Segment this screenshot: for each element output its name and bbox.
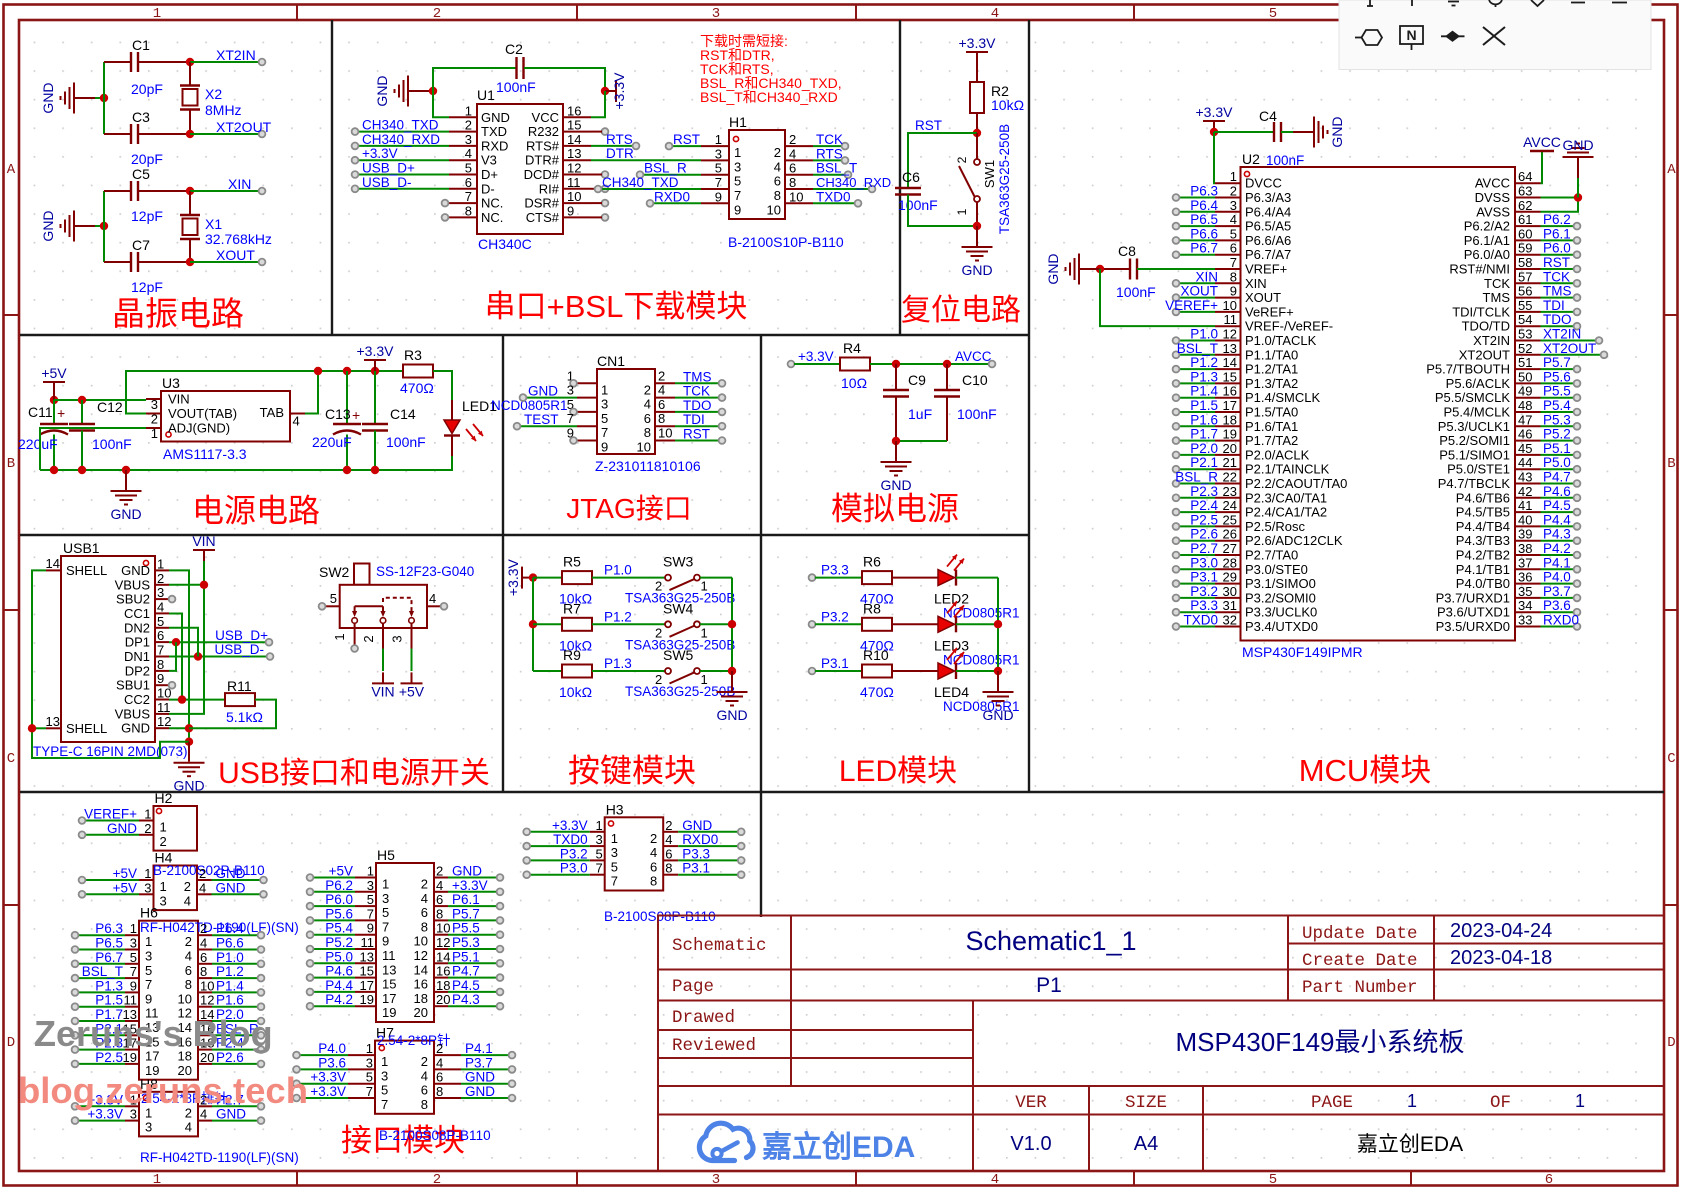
junction (82,400)	[78, 396, 86, 404]
svg-text:P3.3: P3.3	[821, 563, 849, 578]
wire XIN	[190, 190, 259, 192]
svg-text:P2.4: P2.4	[1190, 498, 1218, 513]
svg-text:SW4: SW4	[663, 600, 694, 616]
svg-text:P1.7/TA2: P1.7/TA2	[1245, 433, 1298, 448]
svg-text:NCD0805R1: NCD0805R1	[943, 652, 1020, 667]
svg-text:4: 4	[991, 6, 999, 22]
U2 pin 54 TDO/TD	[1462, 312, 1581, 334]
svg-text:5: 5	[601, 411, 608, 426]
svg-text:+3.3V: +3.3V	[959, 35, 997, 51]
svg-text:9: 9	[367, 921, 374, 936]
svg-text:P4.2: P4.2	[325, 992, 353, 1007]
svg-text:P6.2/A2: P6.2/A2	[1464, 219, 1510, 234]
svg-text:4: 4	[1230, 212, 1237, 227]
title block outline	[658, 916, 1664, 1172]
wire R2 to RST node	[976, 113, 978, 133]
svg-text:R232: R232	[528, 124, 559, 139]
svg-text:19: 19	[360, 992, 374, 1007]
svg-text:P1.2/TA1: P1.2/TA1	[1245, 362, 1298, 377]
svg-text:GND: GND	[982, 707, 1013, 723]
ground GND (power)	[110, 470, 141, 522]
U1 pin 8 NC.	[442, 203, 504, 225]
wire SHELL pin13	[32, 727, 46, 729]
wire rail to R5	[533, 577, 562, 579]
svg-text:TDI: TDI	[1543, 298, 1565, 313]
svg-text:C7: C7	[132, 237, 150, 253]
U3 pin 1 ADJ	[146, 421, 230, 442]
header H1 B-2100S10P-B110 body	[728, 114, 844, 250]
H5 pin 10	[414, 921, 504, 949]
svg-text:P5.5: P5.5	[1543, 384, 1571, 399]
U1 pin 10 DSR#	[524, 189, 608, 211]
svg-text:6: 6	[465, 175, 472, 190]
junction (533,577.6)	[529, 573, 537, 581]
svg-text:5: 5	[1269, 1172, 1277, 1188]
svg-text:P6.0: P6.0	[1543, 241, 1571, 256]
svg-text:8MHz: 8MHz	[205, 102, 242, 118]
svg-text:10: 10	[414, 934, 428, 949]
wire R6 to LED2	[892, 577, 938, 579]
svg-text:52: 52	[1518, 341, 1532, 356]
svg-text:8: 8	[644, 425, 651, 440]
svg-text:8: 8	[421, 919, 428, 934]
svg-text:P2.6: P2.6	[1190, 527, 1218, 542]
U2 pin 42 P4.6/TB6	[1456, 484, 1581, 506]
H7 pin 1	[293, 1041, 388, 1069]
U2 pin 4 P6.5/A5	[1173, 212, 1292, 234]
wire DP2 up to DP1	[169, 642, 176, 671]
svg-text:GND: GND	[40, 82, 56, 113]
svg-text:XIN: XIN	[1195, 269, 1218, 284]
svg-text:XIN: XIN	[1245, 276, 1267, 291]
header H3 body	[604, 801, 716, 924]
svg-text:P1.2: P1.2	[604, 609, 632, 624]
junction (82,470)	[78, 466, 86, 474]
svg-text:3: 3	[157, 585, 164, 600]
svg-text:XT2IN: XT2IN	[1473, 333, 1510, 348]
svg-text:TMS: TMS	[683, 369, 712, 384]
svg-text:P4.0: P4.0	[318, 1041, 346, 1056]
wire crystal bottom left vertical	[103, 191, 105, 262]
svg-text:GND: GND	[40, 210, 56, 241]
H4 pin 3	[79, 880, 167, 908]
H1 pin1 marker	[733, 136, 738, 141]
block divider row2/row3	[20, 534, 1029, 536]
USB1 pin 13 SHELL	[46, 714, 108, 736]
svg-text:5: 5	[366, 1070, 373, 1085]
svg-text:2: 2	[955, 156, 969, 163]
power +3.3V (buttons)	[522, 567, 533, 589]
U2 pin 45 P5.1/SIMO1	[1439, 441, 1580, 463]
net port +3.3V (analog)	[788, 349, 834, 367]
crystal X1 32.768kHz	[180, 191, 272, 262]
svg-text:29: 29	[1223, 570, 1237, 585]
svg-text:2: 2	[789, 132, 796, 147]
H4 pin 2	[184, 866, 267, 894]
svg-text:GND: GND	[216, 880, 246, 895]
toolbar partial icons top row	[1367, 0, 1627, 7]
svg-text:P6.5: P6.5	[1190, 212, 1218, 227]
svg-text:GND: GND	[374, 75, 390, 106]
toolbar icon net-port hexagon	[1355, 30, 1382, 45]
svg-text:+: +	[352, 407, 360, 423]
svg-text:11: 11	[157, 700, 171, 715]
svg-text:P1.4: P1.4	[216, 978, 244, 993]
svg-text:1: 1	[465, 103, 472, 118]
svg-text:P1.5/TA0: P1.5/TA0	[1245, 405, 1298, 420]
svg-text:4: 4	[421, 1068, 428, 1083]
CN1 pin 6	[644, 397, 726, 426]
svg-text:R8: R8	[863, 600, 881, 616]
svg-text:RXD0: RXD0	[1543, 613, 1579, 628]
H7 pin 7	[293, 1084, 388, 1112]
svg-text:9: 9	[734, 202, 741, 217]
svg-text:按键模块: 按键模块	[568, 753, 696, 789]
header H2 body	[154, 790, 198, 851]
svg-text:1: 1	[160, 879, 167, 894]
svg-text:C6: C6	[902, 169, 920, 185]
svg-text:USB_D+: USB_D+	[362, 161, 415, 176]
switch SW3 TSA363G25-250B	[625, 554, 735, 606]
svg-text:16: 16	[436, 964, 450, 979]
svg-text:470Ω: 470Ω	[400, 380, 434, 396]
wire R7 to SW4	[592, 623, 665, 625]
U1 pin 11 RI#	[539, 175, 609, 197]
svg-text:5: 5	[157, 614, 164, 629]
svg-text:P1.5: P1.5	[95, 993, 123, 1008]
wire LED right rail	[997, 578, 999, 671]
power VIN (sw2)	[372, 672, 394, 683]
svg-text:6: 6	[665, 846, 672, 861]
svg-text:P1.6/TA1: P1.6/TA1	[1245, 419, 1298, 434]
svg-text:NC.: NC.	[481, 196, 503, 211]
SW2 pin 1	[332, 623, 358, 652]
svg-text:RXD0: RXD0	[654, 189, 690, 204]
svg-text:P6.4/A4: P6.4/A4	[1245, 204, 1291, 219]
U2 pin 46 P5.2/SOMI1	[1439, 427, 1580, 449]
svg-text:P3.5/URXD0: P3.5/URXD0	[1436, 619, 1510, 634]
net port P3.1	[809, 656, 849, 674]
U3 pin 2 VOUT	[146, 406, 237, 427]
svg-text:TEST: TEST	[524, 412, 559, 427]
svg-text:GND: GND	[682, 818, 712, 833]
U2 pin 55 TDI/TCLK	[1452, 298, 1580, 320]
svg-text:P2.4/CA1/TA2: P2.4/CA1/TA2	[1245, 505, 1327, 520]
USB1 pin 6 DP1	[125, 628, 169, 650]
svg-text:19: 19	[1223, 427, 1237, 442]
svg-text:39: 39	[1518, 527, 1532, 542]
svg-text:GND: GND	[716, 707, 747, 723]
svg-text:P6.6: P6.6	[216, 936, 244, 951]
H3 pin 3	[523, 832, 618, 860]
svg-text:Page: Page	[672, 977, 714, 997]
ground GND (serial)	[395, 76, 430, 107]
U2 pin 31 P3.3/UCLK0	[1173, 598, 1318, 620]
svg-text:6: 6	[644, 411, 651, 426]
svg-text:P3.4/UTXD0: P3.4/UTXD0	[1245, 619, 1318, 634]
CN1 pin 1	[567, 368, 608, 397]
power +5V (sw2)	[401, 672, 423, 683]
svg-text:B-2100S10P-B110: B-2100S10P-B110	[728, 234, 844, 250]
ground GND (crystal bottom)	[61, 211, 96, 242]
H6 pin 15	[72, 1021, 160, 1049]
junction (1578,197.5)	[1574, 193, 1582, 201]
capacitor C13 220uF polarized	[312, 371, 361, 470]
net port USB_D+	[215, 628, 272, 646]
switch SW5 TSA363G25-250B	[625, 647, 735, 699]
svg-text:6: 6	[789, 161, 796, 176]
U2 pin 20 P2.0/ACLK	[1173, 441, 1310, 463]
junction (176,642.2)	[172, 638, 180, 646]
svg-text:P6.7/A7: P6.7/A7	[1245, 247, 1291, 262]
svg-text:1: 1	[595, 818, 602, 833]
H1 pin 9	[647, 189, 742, 217]
H6 pin 19	[72, 1050, 160, 1078]
svg-text:49: 49	[1518, 384, 1532, 399]
svg-text:+5V: +5V	[41, 365, 67, 381]
H5 pin 20	[414, 992, 504, 1020]
svg-text:BSL_R: BSL_R	[1175, 470, 1218, 485]
wire VIN vertical VBUS	[169, 561, 204, 714]
H5 pin 3	[307, 878, 390, 906]
H3 pin 1	[523, 818, 618, 846]
svg-text:+5V: +5V	[399, 683, 425, 699]
svg-text:11: 11	[124, 993, 138, 1008]
svg-text:P6.6/A6: P6.6/A6	[1245, 233, 1291, 248]
svg-text:2: 2	[199, 866, 206, 881]
svg-text:JTAG接口: JTAG接口	[566, 493, 691, 524]
junction (54,400)	[50, 396, 58, 404]
svg-text:45: 45	[1518, 441, 1532, 456]
svg-text:20: 20	[436, 992, 450, 1007]
svg-text:8: 8	[436, 906, 443, 921]
H3 pin 5	[523, 846, 618, 874]
svg-text:GND: GND	[1329, 116, 1345, 147]
svg-text:10: 10	[658, 426, 672, 441]
U2 pin 28 P3.0/STE0	[1173, 555, 1308, 577]
svg-text:+5V: +5V	[113, 866, 137, 881]
svg-text:C13: C13	[325, 406, 351, 422]
net port XOUT	[216, 247, 265, 265]
svg-text:5: 5	[1269, 6, 1277, 22]
H5 pin 19	[307, 992, 397, 1020]
svg-text:2: 2	[436, 864, 443, 879]
svg-text:12pF: 12pF	[131, 279, 163, 295]
svg-text:12: 12	[157, 714, 171, 729]
U1 pin 6 D-	[352, 175, 495, 197]
svg-text:P4.5: P4.5	[452, 978, 480, 993]
wire SHELL loop	[32, 570, 189, 758]
USB1 pin 5 DN2	[124, 614, 169, 636]
H5 pin 11	[307, 935, 396, 963]
U2 pin 26 P2.6/ADC12CLK	[1173, 527, 1343, 549]
svg-text:CH340C: CH340C	[478, 236, 532, 252]
U2 pin 22 P2.2/CAOUT/TA0	[1173, 470, 1348, 492]
svg-text:2: 2	[650, 831, 657, 846]
svg-text:4: 4	[991, 1172, 999, 1188]
svg-text:RST#/NMI: RST#/NMI	[1449, 262, 1510, 277]
power +3.3V (reset)	[966, 52, 988, 63]
svg-text:6: 6	[436, 892, 443, 907]
H3 pin 8	[650, 861, 745, 889]
svg-text:+3.3V: +3.3V	[1196, 104, 1234, 120]
svg-text:DTR: DTR	[606, 146, 634, 161]
svg-text:1: 1	[144, 866, 151, 881]
CN1 pin 5	[567, 397, 608, 426]
svg-text:P6.3: P6.3	[95, 921, 123, 936]
IC U1 CH340C body	[477, 87, 563, 252]
junction (896,441)	[892, 437, 900, 445]
U2 pin 17 P1.5/TA0	[1173, 398, 1299, 420]
wire DN2 down to DN1	[169, 628, 198, 657]
U2 pin 11 VREF-/VeREF-	[1215, 312, 1333, 334]
U2 pin 9 XOUT	[1173, 284, 1282, 306]
svg-text:RI#: RI#	[539, 181, 560, 196]
svg-text:2: 2	[1230, 184, 1237, 199]
svg-text:8: 8	[185, 977, 192, 992]
svg-text:P2.1/TAINCLK: P2.1/TAINCLK	[1245, 462, 1330, 477]
svg-text:47: 47	[1518, 412, 1532, 427]
svg-text:3: 3	[567, 383, 574, 398]
svg-text:VBUS: VBUS	[115, 706, 151, 721]
svg-text:P3.0/STE0: P3.0/STE0	[1245, 562, 1308, 577]
svg-text:P5.5/SMCLK: P5.5/SMCLK	[1435, 390, 1510, 405]
svg-text:C4: C4	[1259, 108, 1277, 124]
U2 pin 57 TCK	[1484, 269, 1580, 291]
svg-text:SHELL: SHELL	[66, 721, 107, 736]
svg-text:C5: C5	[132, 166, 150, 182]
svg-text:3: 3	[381, 1068, 388, 1083]
svg-text:P6.3: P6.3	[1190, 184, 1218, 199]
H5 pin 4	[421, 878, 504, 906]
svg-text:7: 7	[382, 919, 389, 934]
svg-text:7: 7	[366, 1084, 373, 1099]
svg-text:9: 9	[567, 203, 574, 218]
svg-text:220uF: 220uF	[312, 434, 352, 450]
USB1 pin 8 DP2	[125, 657, 169, 679]
H5 pin 9	[307, 921, 390, 949]
svg-text:P6.7: P6.7	[1190, 241, 1218, 256]
capacitor C14 100nF	[362, 371, 426, 470]
U2 pin 5 P6.6/A6	[1173, 226, 1292, 248]
svg-text:CH340_RXD: CH340_RXD	[816, 175, 891, 190]
LED LED1 NCD0805R1	[444, 398, 568, 456]
U2 pin 19 P1.7/TA2	[1173, 427, 1299, 449]
svg-text:23: 23	[1223, 484, 1237, 499]
svg-text:P5.0: P5.0	[325, 949, 353, 964]
svg-text:B-2100S08P-B110: B-2100S08P-B110	[379, 1128, 491, 1143]
svg-text:RST: RST	[1543, 255, 1570, 270]
H6 pin 5	[72, 950, 153, 978]
svg-text:P1.3: P1.3	[1190, 369, 1218, 384]
H5 pin 15	[307, 964, 397, 992]
svg-text:MCU模块: MCU模块	[1299, 753, 1432, 788]
power +3.3V (power block)	[364, 360, 386, 371]
svg-text:USB_D+: USB_D+	[215, 628, 268, 643]
svg-text:1: 1	[382, 877, 389, 892]
svg-text:VER: VER	[1015, 1093, 1047, 1113]
svg-text:32: 32	[1223, 613, 1237, 628]
svg-text:4: 4	[789, 146, 796, 161]
toolbar icon netflag N	[1400, 26, 1423, 50]
svg-text:P4.2: P4.2	[1543, 541, 1571, 556]
svg-text:15: 15	[382, 977, 396, 992]
svg-text:5: 5	[330, 591, 337, 606]
svg-text:D: D	[1667, 1035, 1675, 1051]
svg-text:P1.0: P1.0	[604, 563, 632, 578]
svg-text:TMS: TMS	[1483, 290, 1511, 305]
svg-text:A: A	[7, 162, 16, 178]
svg-text:4: 4	[436, 1055, 443, 1070]
svg-text:P1.0: P1.0	[216, 950, 244, 965]
svg-text:5: 5	[465, 161, 472, 176]
svg-text:4: 4	[650, 845, 657, 860]
svg-text:X2: X2	[205, 86, 222, 102]
svg-text:P6.1/A1: P6.1/A1	[1464, 233, 1510, 248]
U2 pin 44 P5.0/STE1	[1447, 455, 1580, 477]
svg-text:4: 4	[200, 936, 207, 951]
U1 pin 3 RXD	[352, 132, 509, 154]
svg-text:P3.3: P3.3	[1190, 598, 1218, 613]
svg-text:3: 3	[367, 878, 374, 893]
svg-text:XOUT: XOUT	[1245, 290, 1281, 305]
svg-text:7: 7	[595, 861, 602, 876]
svg-text:7: 7	[367, 906, 374, 921]
junction (375,371)	[371, 367, 379, 375]
svg-text:P4.6: P4.6	[325, 964, 353, 979]
H8 pin1 marker	[143, 1095, 148, 1100]
svg-text:8: 8	[789, 175, 796, 190]
H5 pin 14	[414, 949, 504, 977]
ground GND (reset)	[962, 226, 993, 261]
svg-text:R3: R3	[404, 347, 422, 363]
svg-text:P4.7: P4.7	[452, 964, 480, 979]
svg-text:22: 22	[1223, 470, 1237, 485]
svg-text:P6.0: P6.0	[325, 892, 353, 907]
svg-text:SW2: SW2	[319, 564, 350, 580]
CN1 pin 3	[520, 383, 609, 412]
svg-text:P5.3: P5.3	[452, 935, 480, 950]
svg-text:H2: H2	[155, 790, 173, 806]
U1 pin 7 NC.	[442, 189, 504, 211]
block divider crystal/serial	[331, 20, 333, 335]
svg-text:6: 6	[658, 397, 665, 412]
svg-text:D+: D+	[481, 167, 498, 182]
svg-text:1: 1	[715, 132, 722, 147]
svg-text:+3.3V: +3.3V	[310, 1084, 346, 1099]
svg-text:7: 7	[601, 425, 608, 440]
svg-text:5: 5	[1230, 226, 1237, 241]
svg-text:10: 10	[436, 921, 450, 936]
U2 pin 14 P1.2/TA1	[1173, 355, 1299, 377]
svg-text:10: 10	[200, 978, 214, 993]
wire LED3 to right rail	[956, 623, 998, 625]
svg-text:P2.2/CAOUT/TA0: P2.2/CAOUT/TA0	[1245, 476, 1347, 491]
svg-text:8: 8	[465, 203, 472, 218]
svg-text:10Ω: 10Ω	[841, 375, 867, 391]
svg-text:10: 10	[178, 991, 192, 1006]
svg-text:P1.6: P1.6	[1190, 412, 1218, 427]
svg-text:3: 3	[715, 146, 722, 161]
wire SW4 to right rail	[700, 623, 732, 625]
svg-text:10kΩ: 10kΩ	[559, 684, 592, 700]
svg-text:2: 2	[421, 1054, 428, 1069]
svg-text:RTS: RTS	[816, 146, 843, 161]
svg-text:2: 2	[436, 1041, 443, 1056]
svg-text:15: 15	[1223, 369, 1237, 384]
IC U2 MSP430F149IPMR body	[1241, 151, 1516, 660]
junction (375,470)	[371, 466, 379, 474]
